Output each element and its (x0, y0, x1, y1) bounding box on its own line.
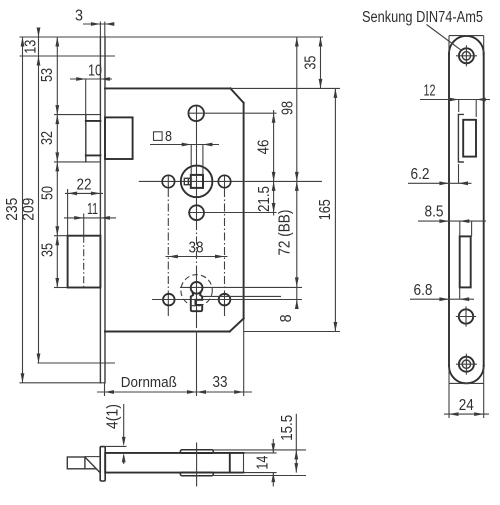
dimension 12 (458, 100, 460, 113)
keyhole shoulder extension line (203, 295, 281, 297)
svg-text:11: 11 (87, 201, 98, 218)
svg-text:50: 50 (39, 186, 56, 200)
dimension 4(1) (123, 404, 125, 441)
vertical axis through follower/keyhole (196, 106, 198, 222)
keyhole (191, 282, 203, 294)
faceplate bottom edge + extension (20, 382, 105, 384)
bolt cutout in plate (460, 236, 471, 287)
svg-text:24: 24 (459, 397, 474, 414)
dimension 165 (334, 88, 336, 331)
latch tip side view (67, 457, 85, 469)
follower tab (184, 178, 191, 184)
main horizontal centerline through follower (139, 180, 322, 182)
svg-text:15.5: 15.5 (279, 415, 296, 441)
svg-text:6.2: 6.2 (411, 166, 430, 183)
svg-text:6.8: 6.8 (414, 282, 433, 299)
svg-text:8: 8 (278, 314, 295, 322)
dimension 38 (166, 256, 228, 258)
middle hole with cross (459, 309, 473, 323)
svg-text:35: 35 (39, 243, 56, 257)
svg-text:Dornmaß: Dornmaß (121, 374, 177, 391)
dimension square 8 (190, 145, 192, 175)
Dornmass / 33 dimension (104, 383, 106, 396)
top screw hole (459, 48, 474, 63)
dimension 6.8 (459, 287, 461, 299)
lower side holes (163, 294, 175, 306)
svg-text:35: 35 (302, 56, 319, 70)
bottom screw hole (459, 357, 474, 372)
dimension 14 (272, 439, 274, 453)
top extension line (faceplate top) (20, 36, 324, 38)
dimension 15.5 (295, 414, 297, 473)
dimension 6.2 (458, 164, 460, 183)
dimension 8.5 (459, 221, 461, 236)
side hole axes (167, 175, 169, 190)
dimension 98 / 72 / 8 line (296, 37, 298, 309)
hole below follower (189, 205, 204, 220)
svg-text:235: 235 (4, 198, 21, 221)
svg-text:8: 8 (165, 129, 172, 145)
faceplate bar edge-on (100, 447, 105, 481)
svg-text:8.5: 8.5 (425, 204, 444, 221)
dimension 35 top right (320, 37, 322, 88)
dimension 24 (448, 383, 450, 418)
svg-text:209: 209 (21, 198, 38, 221)
deadbolt throw line (dashed) (83, 236, 85, 288)
svg-text:53: 53 (39, 68, 56, 82)
label square8 (154, 132, 163, 141)
lower holes centerline (152, 299, 302, 301)
svg-text:21.5: 21.5 (256, 186, 273, 212)
follower axis in side view (196, 443, 198, 487)
reference line plate top (103, 445, 127, 447)
svg-text:72 (BB): 72 (BB) (277, 210, 294, 256)
follower U1 (181, 166, 213, 198)
case bottom extension to right dims (244, 331, 340, 333)
follower boss bottom (180, 472, 213, 475)
svg-text:33: 33 (213, 374, 228, 391)
dimension 235 line (22, 37, 24, 383)
svg-text:22: 22 (77, 177, 92, 194)
band edge extensions (244, 452, 277, 454)
follower square 8mm (191, 175, 203, 188)
dimension chain 53/32/50/35 line (56, 37, 58, 288)
keyhole centerline (180, 286, 302, 288)
latch head front view (54, 114, 100, 116)
extension line y56 (13mm tick) (20, 55, 116, 57)
dimension 22 (bolt throw) (67, 189, 69, 236)
svg-text:14: 14 (254, 455, 271, 469)
faceplate front view (99, 37, 101, 383)
top hole (188, 106, 204, 122)
case band side view (105, 453, 243, 473)
dimension 46 / 21.5 line (273, 110, 275, 216)
svg-text:98: 98 (279, 101, 296, 115)
svg-text:38: 38 (189, 240, 204, 257)
deadbolt front view (54, 235, 68, 237)
dimension 11 (83, 214, 85, 236)
plate outline (448, 53, 450, 366)
dimension 3 (faceplate thickness) (99, 22, 101, 38)
dimension 10 (latch protrusion) (85, 79, 87, 114)
upper side holes (162, 175, 174, 187)
thin square-end lines (449, 35, 484, 37)
lock case outline (105, 87, 230, 89)
svg-text:3: 3 (75, 8, 83, 25)
case top extension to right dims (230, 87, 340, 89)
svg-text:Senkung DIN74-Am5: Senkung DIN74-Am5 (362, 9, 483, 26)
svg-text:4(1): 4(1) (104, 404, 121, 429)
follower boss top (180, 450, 213, 453)
dimension 209 line (shared with 13) (38, 30, 40, 364)
svg-text:12: 12 (424, 83, 436, 100)
svg-text:13: 13 (23, 40, 40, 54)
dashed cylinder circle (181, 275, 212, 306)
extension line y363 (209 bottom tick) (38, 362, 116, 364)
latch cutout in plate (458, 114, 463, 162)
svg-text:32: 32 (39, 131, 56, 145)
svg-text:46: 46 (256, 140, 273, 155)
latch block inside case (105, 117, 133, 159)
svg-text:165: 165 (317, 199, 334, 220)
